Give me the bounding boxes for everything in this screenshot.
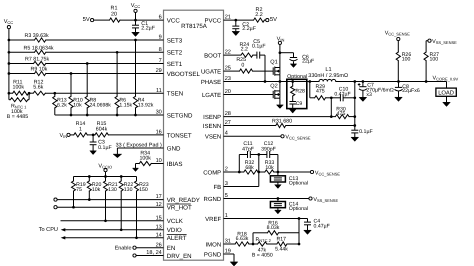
wire C13 stub (277, 172, 279, 176)
svg-text:22µF: 22µF (302, 58, 315, 64)
pin 9 SET3 (left) (159, 35, 183, 45)
wire TSEN net (8, 92, 164, 95)
svg-text:0.47µF: 0.47µF (334, 91, 350, 97)
pin 17 VR_READY (left) (156, 194, 200, 204)
svg-text:5.44k: 5.44k (275, 247, 288, 253)
svg-text:VIN: VIN (60, 133, 68, 139)
svg-text:24.0698k: 24.0698k (90, 102, 112, 108)
capacitor C9 (289, 96, 302, 109)
power terminal Vin (277, 36, 285, 44)
svg-text:R31 680: R31 680 (272, 119, 292, 125)
wire VCC net (94, 19, 164, 22)
resistor R6 (115, 52, 132, 115)
power terminal 5V (left) (83, 17, 94, 23)
wire Vcc stub (135, 13, 137, 21)
wire TONSET net (70, 134, 163, 137)
svg-text:C9: C9 (296, 101, 303, 107)
svg-text:SETGND: SETGND (167, 112, 193, 119)
wire VDIO net (61, 228, 164, 231)
svg-text:VBOOTSEL: VBOOTSEL (167, 71, 201, 78)
svg-text:BOOT: BOOT (204, 53, 221, 60)
ground (C7) (359, 97, 367, 101)
wire R29-C10 node (326, 96, 341, 99)
thermistor RNTC2 (252, 237, 273, 258)
resistor R33 (265, 160, 275, 174)
svg-text:R28: R28 (295, 89, 305, 95)
svg-text:Enable: Enable (115, 246, 132, 252)
resistor R8 (85, 64, 111, 116)
pin 33 ( Exposed Pad ) GND (left) (116, 143, 181, 153)
wire C4 stub (307, 219, 309, 222)
ground (R34) (133, 168, 139, 171)
wire PVCC net (224, 19, 266, 22)
resistor R23 (135, 177, 149, 238)
svg-text:6.63k: 6.63k (236, 236, 249, 242)
svg-text:PHASE: PHASE (201, 79, 221, 86)
capacitor C6 (290, 54, 315, 64)
pin 11 TSEN (left) (156, 88, 183, 98)
resistor R32 (244, 160, 258, 174)
svg-text:VR_READY: VR_READY (167, 197, 200, 204)
pin 5 RGND (right) (204, 193, 228, 203)
svg-text:2.2: 2.2 (255, 12, 263, 18)
svg-text:1: 1 (79, 126, 82, 132)
node VCORE label (433, 76, 459, 82)
pin 22 BOOT (right) (204, 50, 231, 60)
svg-text:LOAD: LOAD (438, 90, 454, 97)
svg-text:75: 75 (76, 187, 82, 193)
svg-text:VSS_SENSE: VSS_SENSE (313, 197, 338, 203)
ground (Q2) (277, 105, 284, 109)
power terminal VCCIO (98, 163, 112, 171)
svg-text:130: 130 (124, 187, 133, 193)
wire PHASE net (224, 80, 319, 83)
wire GND pad net (117, 148, 163, 154)
svg-text:UGATE: UGATE (201, 69, 221, 76)
wire ALERT net (61, 236, 164, 239)
power terminal Vcc (ladder supply) (4, 19, 14, 29)
capacitor 0.1uF (ISENN) (351, 129, 373, 137)
svg-text:VDIO: VDIO (167, 227, 182, 234)
wire C6 branch (280, 53, 294, 58)
svg-text:IMON: IMON (206, 241, 222, 248)
pin 13 VDIO (left) (156, 224, 182, 234)
wire COMP net (224, 171, 311, 174)
svg-text:RNTC 2: RNTC 2 (256, 237, 272, 243)
capacitor C11 (242, 141, 254, 158)
pin 2 COMP (right) (203, 167, 228, 177)
svg-text:100k: 100k (13, 85, 25, 91)
svg-text:Q1: Q1 (270, 59, 277, 65)
ground (C8) (395, 97, 403, 101)
pin 25 UGATE (right) (201, 66, 231, 76)
svg-text:FB: FB (214, 184, 222, 191)
svg-text:ISENP: ISENP (203, 114, 221, 121)
wire IMON net (224, 243, 301, 246)
wire C10 to Vout (343, 97, 354, 99)
resistor R10 (69, 74, 83, 116)
terminal VR_READY (54, 198, 57, 201)
sense terminal VSS_SENSE (RGND) (309, 197, 339, 203)
load box (436, 88, 456, 97)
wire FB net (224, 155, 259, 187)
svg-text:5.6k: 5.6k (33, 85, 43, 91)
pin 1 VREF (right) (205, 213, 228, 223)
svg-text:SET2: SET2 (167, 50, 183, 57)
wire SET2 net (9, 51, 164, 54)
terminal Enable (115, 246, 136, 252)
pin 8 SET2 (left) (159, 47, 183, 57)
svg-text:DRV_EN: DRV_EN (167, 253, 192, 260)
resistor R19 (72, 177, 86, 208)
pin 3 FB (right) (214, 181, 228, 191)
svg-text:VCC: VCC (131, 3, 141, 9)
svg-text:5V: 5V (270, 17, 277, 23)
svg-text:To CPU: To CPU (39, 227, 58, 233)
svg-text:Q2: Q2 (270, 84, 277, 90)
pin 31 IMON (right) (206, 239, 231, 249)
wire R29 branch (310, 82, 315, 98)
wire Vcc rail (8, 29, 11, 94)
pin 16 TONSET (left) (156, 130, 192, 140)
wire C14 stub (277, 199, 279, 202)
svg-text:100: 100 (402, 57, 411, 63)
svg-text:0.1µF: 0.1µF (359, 129, 373, 135)
svg-text:EN: EN (167, 245, 176, 252)
svg-text:6.2k: 6.2k (57, 102, 67, 108)
pin 21 PVCC (right) (205, 15, 231, 25)
svg-text:390pF: 390pF (261, 146, 276, 152)
svg-text:8.03k: 8.03k (267, 225, 280, 231)
label To CPU (39, 227, 58, 233)
wire SETGND net (55, 114, 164, 117)
capacitor C1 (132, 20, 156, 32)
svg-text:R9 10k: R9 10k (31, 67, 48, 73)
svg-text:475: 475 (316, 89, 325, 95)
resistor R28 (291, 82, 305, 96)
wire R16 loop (253, 219, 299, 245)
svg-text:2.2: 2.2 (241, 46, 248, 52)
svg-text:1.15k: 1.15k (119, 102, 132, 108)
svg-text:22µFx6: 22µFx6 (402, 88, 420, 94)
pin 10 IBIAS (left) (156, 158, 183, 168)
svg-text:TSEN: TSEN (167, 91, 183, 98)
pin 19 PGND (right) (204, 249, 231, 259)
svg-text:LGATE: LGATE (202, 92, 221, 99)
ground (C4) (304, 230, 312, 234)
svg-text:0.1µF: 0.1µF (98, 145, 112, 151)
sense terminal VCC_SENSE (comp) (310, 170, 340, 176)
svg-text:10k: 10k (265, 165, 274, 171)
terminal VR_HOT (54, 206, 57, 209)
ground (LOAD) (443, 102, 451, 106)
capacitor C8 (395, 82, 420, 98)
svg-text:4: 4 (225, 131, 228, 137)
resistor R22 (119, 177, 133, 230)
resistor R31 (272, 119, 292, 128)
wire VCLK net (61, 219, 164, 222)
wire VSEN net (224, 135, 281, 137)
svg-text:VCORE_0.9V: VCORE_0.9V (433, 76, 459, 82)
svg-text:Optional: Optional (289, 206, 308, 212)
svg-text:VCC_SENSE: VCC_SENSE (315, 170, 341, 176)
power terminal Vcc (at C1) (131, 3, 141, 12)
wire UGATE net (224, 70, 274, 72)
svg-text:10k: 10k (73, 102, 82, 108)
svg-text:20: 20 (111, 12, 117, 18)
resistor R26 (396, 41, 411, 82)
transistor Q1 (270, 59, 280, 75)
svg-text:10k: 10k (92, 187, 101, 193)
wire RGND net (224, 197, 309, 200)
svg-text:0.47µF: 0.47µF (314, 223, 330, 229)
ground (0.1uF) (351, 137, 359, 141)
svg-text:RGND: RGND (204, 196, 222, 203)
pin 28 ISENP (right) (203, 111, 231, 121)
terminal DRV_EN stub (133, 254, 136, 257)
resistor R21 (104, 177, 118, 221)
transistor Q2 (270, 84, 280, 99)
resistor R1 (110, 6, 120, 23)
pin 4 VSEN (right) (205, 131, 228, 141)
resistor R14 (74, 121, 87, 137)
resistor R5 (24, 45, 54, 54)
svg-text:VREF: VREF (205, 216, 221, 223)
wire load to ground (446, 96, 448, 102)
svg-text:Optional: Optional (287, 74, 307, 80)
svg-text:2.2µF: 2.2µF (141, 26, 155, 32)
resistor R7 (25, 57, 49, 66)
input terminal Vin (TONSET) (60, 133, 71, 139)
pin 15 VCLK (left) (156, 215, 184, 225)
svg-text:VR_HOT: VR_HOT (167, 205, 192, 212)
resistor R27 (424, 41, 439, 82)
svg-text:0: 0 (241, 62, 244, 68)
capacitor C10 (334, 87, 350, 102)
wire Vin to Q1 drain (279, 45, 282, 68)
capacitor C4 (304, 218, 330, 230)
wire Q1 source to phase (279, 75, 281, 82)
optional snubber box (287, 74, 307, 109)
wire VOUT rail (338, 80, 447, 88)
wire SET3 net (9, 39, 164, 42)
ground (C14) (275, 210, 282, 214)
resistor R2 (254, 7, 265, 22)
wire SET1 net (9, 62, 164, 65)
ground (snubber) (289, 109, 296, 113)
inductor L1 (308, 67, 348, 81)
pin 18, 24 DRV_EN (left) (146, 250, 191, 260)
wire VREF net (224, 217, 308, 220)
svg-text:2.2µF: 2.2µF (242, 26, 256, 32)
pin 29 VBOOTSEL (left) (156, 68, 201, 78)
power terminal 5V (right) (266, 17, 277, 23)
resistor R17 (275, 237, 288, 253)
wire comp top left (239, 155, 247, 173)
sense terminal VCC_SENSE (top) (385, 30, 411, 40)
svg-text:TONSET: TONSET (167, 132, 192, 139)
svg-text:475: 475 (337, 111, 346, 117)
ground (C2) (232, 31, 240, 35)
wire Vout sense vertical (353, 82, 356, 130)
svg-text:130: 130 (108, 187, 117, 193)
ground (C13) (275, 185, 282, 189)
resistor R4 (133, 40, 153, 115)
resistor R29 (315, 84, 326, 100)
pin 7 SET1 (left) (159, 58, 183, 68)
svg-text:100k: 100k (139, 156, 151, 162)
wire ISENP net (224, 98, 336, 118)
resistor R13 (53, 93, 68, 115)
svg-text:5V: 5V (83, 17, 90, 23)
resistor R30 (335, 107, 349, 119)
svg-text:VIN: VIN (277, 36, 285, 42)
resistor R24 (239, 42, 252, 57)
svg-text:VCC_SENSE: VCC_SENSE (385, 30, 411, 36)
wire PGND net (224, 254, 235, 262)
svg-text:VCC: VCC (167, 18, 181, 25)
ground (exposed pad) (113, 154, 122, 158)
wire VR_READY net (57, 198, 163, 201)
capacitor C2 (232, 20, 256, 32)
svg-text:GND: GND (167, 145, 181, 152)
resistor R15 (95, 121, 108, 137)
svg-text:68k: 68k (245, 165, 254, 171)
svg-text:SET3: SET3 (167, 37, 183, 44)
capacitor C12 (261, 141, 276, 158)
svg-text:604k: 604k (96, 126, 108, 132)
svg-text:VCC: VCC (4, 19, 14, 25)
wire comp top mid (251, 153, 267, 156)
wire VCCIO rail (74, 172, 137, 178)
svg-text:VCCIO: VCCIO (98, 163, 112, 169)
resistor R11 (13, 79, 29, 95)
pin 12 VR_HOT (left) (156, 202, 192, 212)
svg-text:ISENN: ISENN (203, 123, 221, 130)
sense terminal VCC_SENSE (VSEN) (281, 135, 311, 141)
wire VR_HOT net (57, 206, 163, 209)
thermistor RNTC1 (7, 93, 29, 120)
svg-text:VSS_SENSE: VSS_SENSE (432, 39, 457, 45)
capacitor C13 optional (270, 176, 308, 187)
resistor R25 (236, 57, 252, 73)
svg-text:VCC_SENSE: VCC_SENSE (285, 135, 311, 141)
resistor R9 (31, 67, 48, 76)
wire BOOT net (224, 55, 266, 81)
resistor R34 (139, 151, 151, 166)
pin 27 ISENN (right) (203, 120, 231, 130)
svg-text:R7 81.75k: R7 81.75k (25, 57, 49, 63)
wire Q2 drain to phase (279, 82, 281, 91)
wire ISENN net (224, 125, 355, 127)
svg-text:VCLK: VCLK (167, 218, 184, 225)
svg-text:330nH / 2.95mΩ: 330nH / 2.95mΩ (308, 73, 348, 79)
wire LGATE net (224, 94, 274, 96)
svg-text:0.1µF: 0.1µF (252, 44, 266, 50)
wire IBIAS net (136, 164, 164, 169)
capacitor C3 (90, 135, 113, 151)
svg-text:VSEN: VSEN (205, 133, 221, 140)
svg-text:R5 18.0634k: R5 18.0634k (24, 45, 54, 51)
pin 20 LGATE (right) (202, 89, 231, 99)
ground (C3) (90, 151, 97, 155)
wire DRV_EN net (136, 255, 163, 257)
pin 14 ALERT (left) (156, 232, 187, 242)
svg-text:PGND: PGND (204, 251, 222, 258)
svg-text:PVCC: PVCC (205, 18, 222, 25)
wire Q2 source (279, 98, 281, 105)
pin 30 SETGND (left) (156, 110, 193, 120)
wire VBOOTSEL net (9, 72, 164, 75)
svg-text:R17: R17 (277, 237, 287, 243)
ground (PGND) (230, 262, 238, 266)
svg-text:47pF: 47pF (242, 146, 254, 152)
sense terminal VSS_SENSE (top) (426, 39, 457, 45)
pin 23 PHASE (right) (201, 76, 231, 86)
ground (C6) (290, 64, 296, 68)
ground (C1) (132, 32, 140, 36)
svg-text:SET1: SET1 (167, 61, 183, 68)
svg-text:13.92k: 13.92k (138, 102, 154, 108)
svg-text:ALERT: ALERT (167, 235, 187, 242)
pin 6 VCC (left) (159, 15, 181, 25)
svg-text:Optional: Optional (289, 181, 308, 187)
IC U1 RT8175A controller (164, 10, 224, 260)
pin 26 EN (left) (156, 242, 176, 252)
svg-text:x3: x3 (366, 92, 372, 98)
resistor R18 (235, 232, 249, 247)
wire comp top right (270, 155, 278, 173)
svg-text:COMP: COMP (203, 169, 221, 176)
wire R30 to Vout (349, 116, 355, 118)
svg-text:B = 4050: B = 4050 (252, 252, 273, 258)
svg-text:100: 100 (430, 57, 439, 63)
resistor R20 (87, 177, 101, 200)
capacitor C7 (358, 82, 394, 98)
capacitor C5 (252, 39, 266, 59)
resistor R16 (267, 221, 280, 235)
resistor R3 (25, 33, 49, 42)
resistor R12 (33, 79, 45, 95)
svg-text:IBIAS: IBIAS (167, 161, 183, 168)
svg-text:R3 39.63k: R3 39.63k (25, 33, 49, 39)
wire EN net (136, 247, 163, 249)
svg-text:150: 150 (139, 187, 148, 193)
capacitor C14 optional (270, 202, 308, 213)
svg-text:B = 4485: B = 4485 (7, 114, 28, 120)
